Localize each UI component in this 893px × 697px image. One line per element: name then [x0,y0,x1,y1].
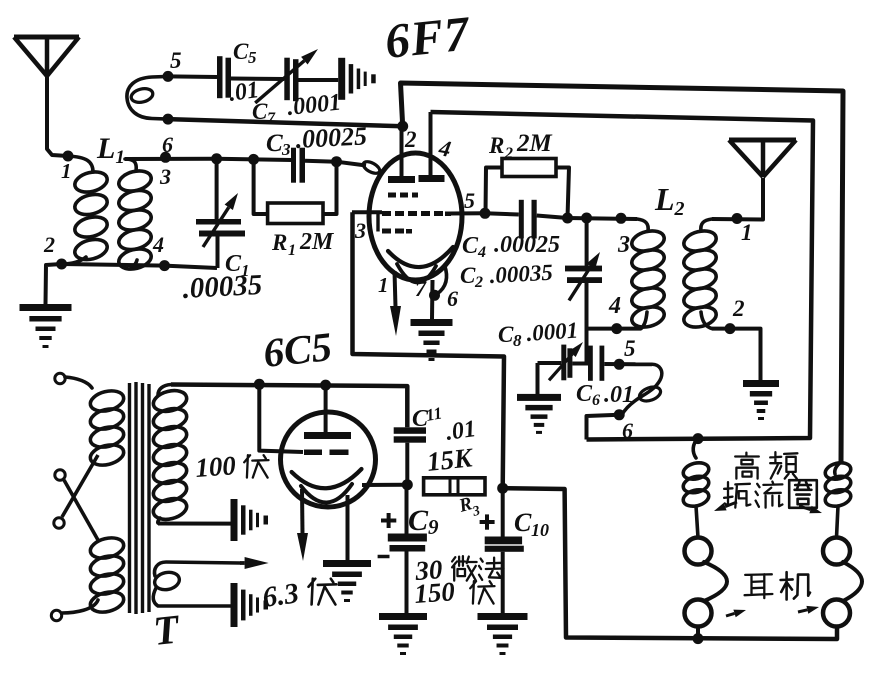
svg-text:5: 5 [170,48,182,73]
svg-text:C: C [498,322,514,347]
ground (C8) [517,394,561,401]
svg-text:6: 6 [447,286,458,311]
plug (6.3V tap) [231,583,238,627]
coil T heater winding single turn [154,562,240,576]
wire node4 run (L2 bottom left) [587,327,642,331]
svg-text:1: 1 [741,220,753,245]
capacitor C3 .00025 [291,148,296,183]
arrow to right choke [799,506,811,510]
grid cap hook (6F7) [337,162,367,166]
wire R3 node to bottom bus [503,488,837,639]
svg-text:4: 4 [477,244,486,261]
svg-text:5: 5 [248,48,257,67]
svg-text:100: 100 [194,450,237,483]
grid dashes row3 (6F7) [382,229,391,234]
pin lead with arrow (6C5 filament) [300,489,305,534]
headphone left earpiece top [685,538,712,565]
svg-text:1: 1 [61,159,72,183]
svg-text:R: R [271,230,287,255]
node 6 junction (regen) [614,409,625,420]
plate bar (6C5) [304,432,351,439]
capacitor C4 .00025 [485,213,519,214]
svg-text:3: 3 [617,232,630,258]
wire winding-top to node 6 run [125,157,216,161]
coil L1 primary winding (pins 1-2) [68,156,93,172]
label 高頻 [735,453,759,479]
ground (sideways, tickler return) [338,58,345,100]
svg-text:6: 6 [622,418,633,443]
wire pin 7 lead [430,280,435,319]
wire pin 4 lead [429,112,433,175]
node 5 junction (regen) [614,359,625,370]
svg-text:.00025: .00025 [494,232,560,258]
node 5 junction (tickler top) [163,71,174,82]
svg-text:2: 2 [404,127,417,152]
svg-text:R: R [488,133,504,158]
svg-text:5: 5 [624,336,636,361]
svg-text:C: C [460,263,476,288]
svg-text:1: 1 [288,242,296,259]
headphone right earpiece bottom [823,600,850,627]
coil L2 right winding (pins 1-2) [701,219,712,231]
capacitor C5 .01 [217,56,223,98]
wire L1 bottom bus [62,264,217,268]
svg-text:2: 2 [504,145,513,162]
coil L2 left winding (pins 3-4) [637,219,648,231]
wire primary bottom to terminal [62,600,98,613]
wire rail pin4 to inner right rail [431,112,814,440]
svg-text:.00035: .00035 [182,269,263,305]
plug (100V tap) [231,499,238,541]
grid dashes row1 (6F7) [388,193,396,198]
capacitor C6 .01 [572,362,588,366]
label 扼流圈 [724,482,750,508]
node L2-4 junction [611,323,622,334]
wire pin 2 lead [400,126,404,176]
node C1-top junction [211,153,222,164]
wire pin 5 lead [449,211,485,215]
node plate-lead junction (6C5) [320,380,331,391]
node R1-left junction [248,154,259,165]
node C4-right junction [562,213,573,224]
node pin5 junction [480,208,491,219]
svg-text:6: 6 [162,132,173,157]
capacitor C11 .01 [394,427,426,434]
svg-text:3: 3 [281,140,291,159]
terminal circle T-primary-mid1 [55,470,65,480]
wire 6C5 heater-right lead [346,495,350,560]
wire 6C5 plate lead [324,385,328,432]
capacitor C2 .00035 (variable) [585,218,589,266]
node phones-left junction [693,633,704,644]
svg-text:6.3: 6.3 [261,577,301,614]
svg-text:2: 2 [732,296,745,321]
capacitor C7 .0001 (variable) [284,58,290,100]
svg-text:C: C [462,233,479,259]
wire node6 to inner-rail bottom [587,415,620,440]
wire L2 pin1 to antenna [712,178,763,220]
node 6 junction [160,152,171,163]
polarity - (C9) [378,555,390,559]
heater arc (6C5) [301,484,352,503]
node L1-4 junction [159,260,170,271]
node R3-left junction [402,479,413,490]
tube 6C5 envelope [281,412,376,507]
wire pin3 down-and-over to R3 node [353,212,505,488]
wire B wire transformer to C11 corner [171,385,407,428]
grid dashes row2 (6F7) [382,211,391,216]
wire C7 to plug [299,78,339,82]
svg-text:7: 7 [415,276,427,301]
svg-text:6F7: 6F7 [382,5,473,69]
grid bracket + pin3 lead (6F7) [376,214,379,232]
svg-text:3: 3 [354,218,366,243]
svg-text:.01: .01 [444,416,477,446]
wire C4 node to L2 pin3 [568,218,638,219]
svg-text:.0001: .0001 [526,317,579,346]
ground (C10) [478,613,528,620]
node L2-1 junction [732,213,743,224]
coil tickler single-turn loop [127,76,168,119]
cathode arc (6F7) [388,247,453,267]
coil T primary lower winding [88,535,126,562]
terminal circle T-primary-top [55,373,65,383]
svg-text:3: 3 [159,164,171,189]
node 1 junction [63,151,74,162]
svg-text:150: 150 [413,576,456,609]
headphone left band [704,562,727,601]
svg-text:2: 2 [43,232,55,257]
svg-text:7: 7 [267,110,276,127]
wire terminal to primary top [65,377,92,388]
grid dashes (6C5) [304,450,322,456]
pin 1 lead with arrow (6F7 filament) [395,271,396,307]
plate bar right (6F7 pin4) [419,175,445,182]
wire C8 to ground [536,363,540,394]
wire secondary HV bottom to plug [158,522,231,526]
node L2-3 junction [616,213,627,224]
svg-text:C: C [514,508,532,537]
node grid-drop junction (6C5) [254,379,265,390]
svg-text:10: 10 [531,520,549,540]
capacitor C9 30uF (electrolytic) [405,486,409,536]
coil RF choke right [835,462,841,474]
antenna A2 mast [729,138,796,143]
terminal circle T-primary-mid2 [54,518,64,528]
headphone right band [843,562,862,601]
svg-text:5: 5 [464,188,475,213]
wire 6C5 cathode to R3 node [362,483,407,487]
node 2 junction [56,259,67,270]
svg-text:4: 4 [152,232,164,257]
polarity + (C10) [480,520,495,524]
node choke-left junction [693,433,704,444]
svg-text:9: 9 [428,515,439,539]
node R3-right junction [497,483,508,494]
svg-text:C: C [576,381,593,407]
node pin7/pin6 junction [429,290,440,301]
plate bar left (6F7 pin2) [388,176,415,183]
svg-text:C: C [233,39,249,64]
svg-text:6C5: 6C5 [261,323,334,376]
svg-text:8: 8 [513,331,522,350]
ground (6C5 heater) [323,560,371,567]
headphone left earpiece bottom [685,600,712,627]
arrow to left choke [725,502,737,507]
wire C5 to C7 [231,77,284,82]
wire heater arrow output [240,561,245,565]
wire antenna A1 lead down to node 1 [47,76,68,156]
capacitor C8 .0001 (variable) [538,361,562,365]
svg-text:2M: 2M [516,130,553,157]
node C3/R1-right junction [331,156,342,167]
wire left earpiece to bus [696,627,700,640]
wire primary crossover upper [62,455,98,517]
svg-text:C: C [408,504,429,537]
coil single-turn loop (regen 5-6) [622,364,662,415]
heater arc (6F7) [397,264,436,283]
coil L1 secondary winding (pins 6/3 - 4) [125,159,136,171]
coil T secondary HV winding [158,385,171,396]
capacitor C1 .00035 (variable) [215,159,219,219]
ground (6F7 cathode) [411,319,453,326]
wire tickler bottom to pin2 node [168,119,403,126]
capacitor C10 (electrolytic) [501,488,505,536]
arrow to right phone [798,610,807,612]
wire L2 pin2 to ground [712,329,761,380]
svg-text:6: 6 [592,392,600,409]
coil T primary upper winding [88,388,126,415]
headphone right earpiece top [823,538,850,565]
node tickler-bottom junction [163,114,174,125]
svg-text:15K: 15K [425,442,475,477]
ground (L2 secondary) [743,380,779,387]
svg-text:2M: 2M [299,229,335,255]
ground (C9) [379,613,427,620]
svg-text:C: C [266,130,283,157]
wire node5 to C5 [168,74,217,79]
svg-text:.00035: .00035 [489,260,553,288]
wire 6C5 grid lead [259,384,303,452]
arrow to left phone [726,613,735,616]
coil RF choke left [693,439,698,458]
tube 6F7 envelope [369,153,462,280]
terminal circle T-primary-bottom [51,610,61,620]
wire rail pin2 to outer right rail [401,83,844,462]
svg-text:4: 4 [608,293,621,319]
antenna A1 mast [14,35,79,40]
wire node2 to ground [46,264,62,304]
node L2-2 junction [725,323,736,334]
transformer core laminations [128,383,131,613]
resistor R1 2M [254,159,268,214]
ground (antenna) [20,304,72,311]
node pin2 junction [397,121,408,132]
wire node6 to C3 and R1 taps [216,159,292,160]
node C2-top junction [581,213,592,224]
svg-text:1: 1 [378,273,389,297]
svg-text:2: 2 [474,274,483,291]
wire primary crossover lower [64,480,98,540]
resistor R2 2M [486,168,503,214]
polarity + (C9) [381,519,396,523]
pin 6 hook (6F7) [437,265,447,294]
resistor R3 15K [424,478,485,495]
label 耳机 [745,574,773,598]
svg-text:C: C [252,99,268,124]
cathode arc (6C5) [292,469,362,488]
svg-text:11: 11 [424,403,443,425]
